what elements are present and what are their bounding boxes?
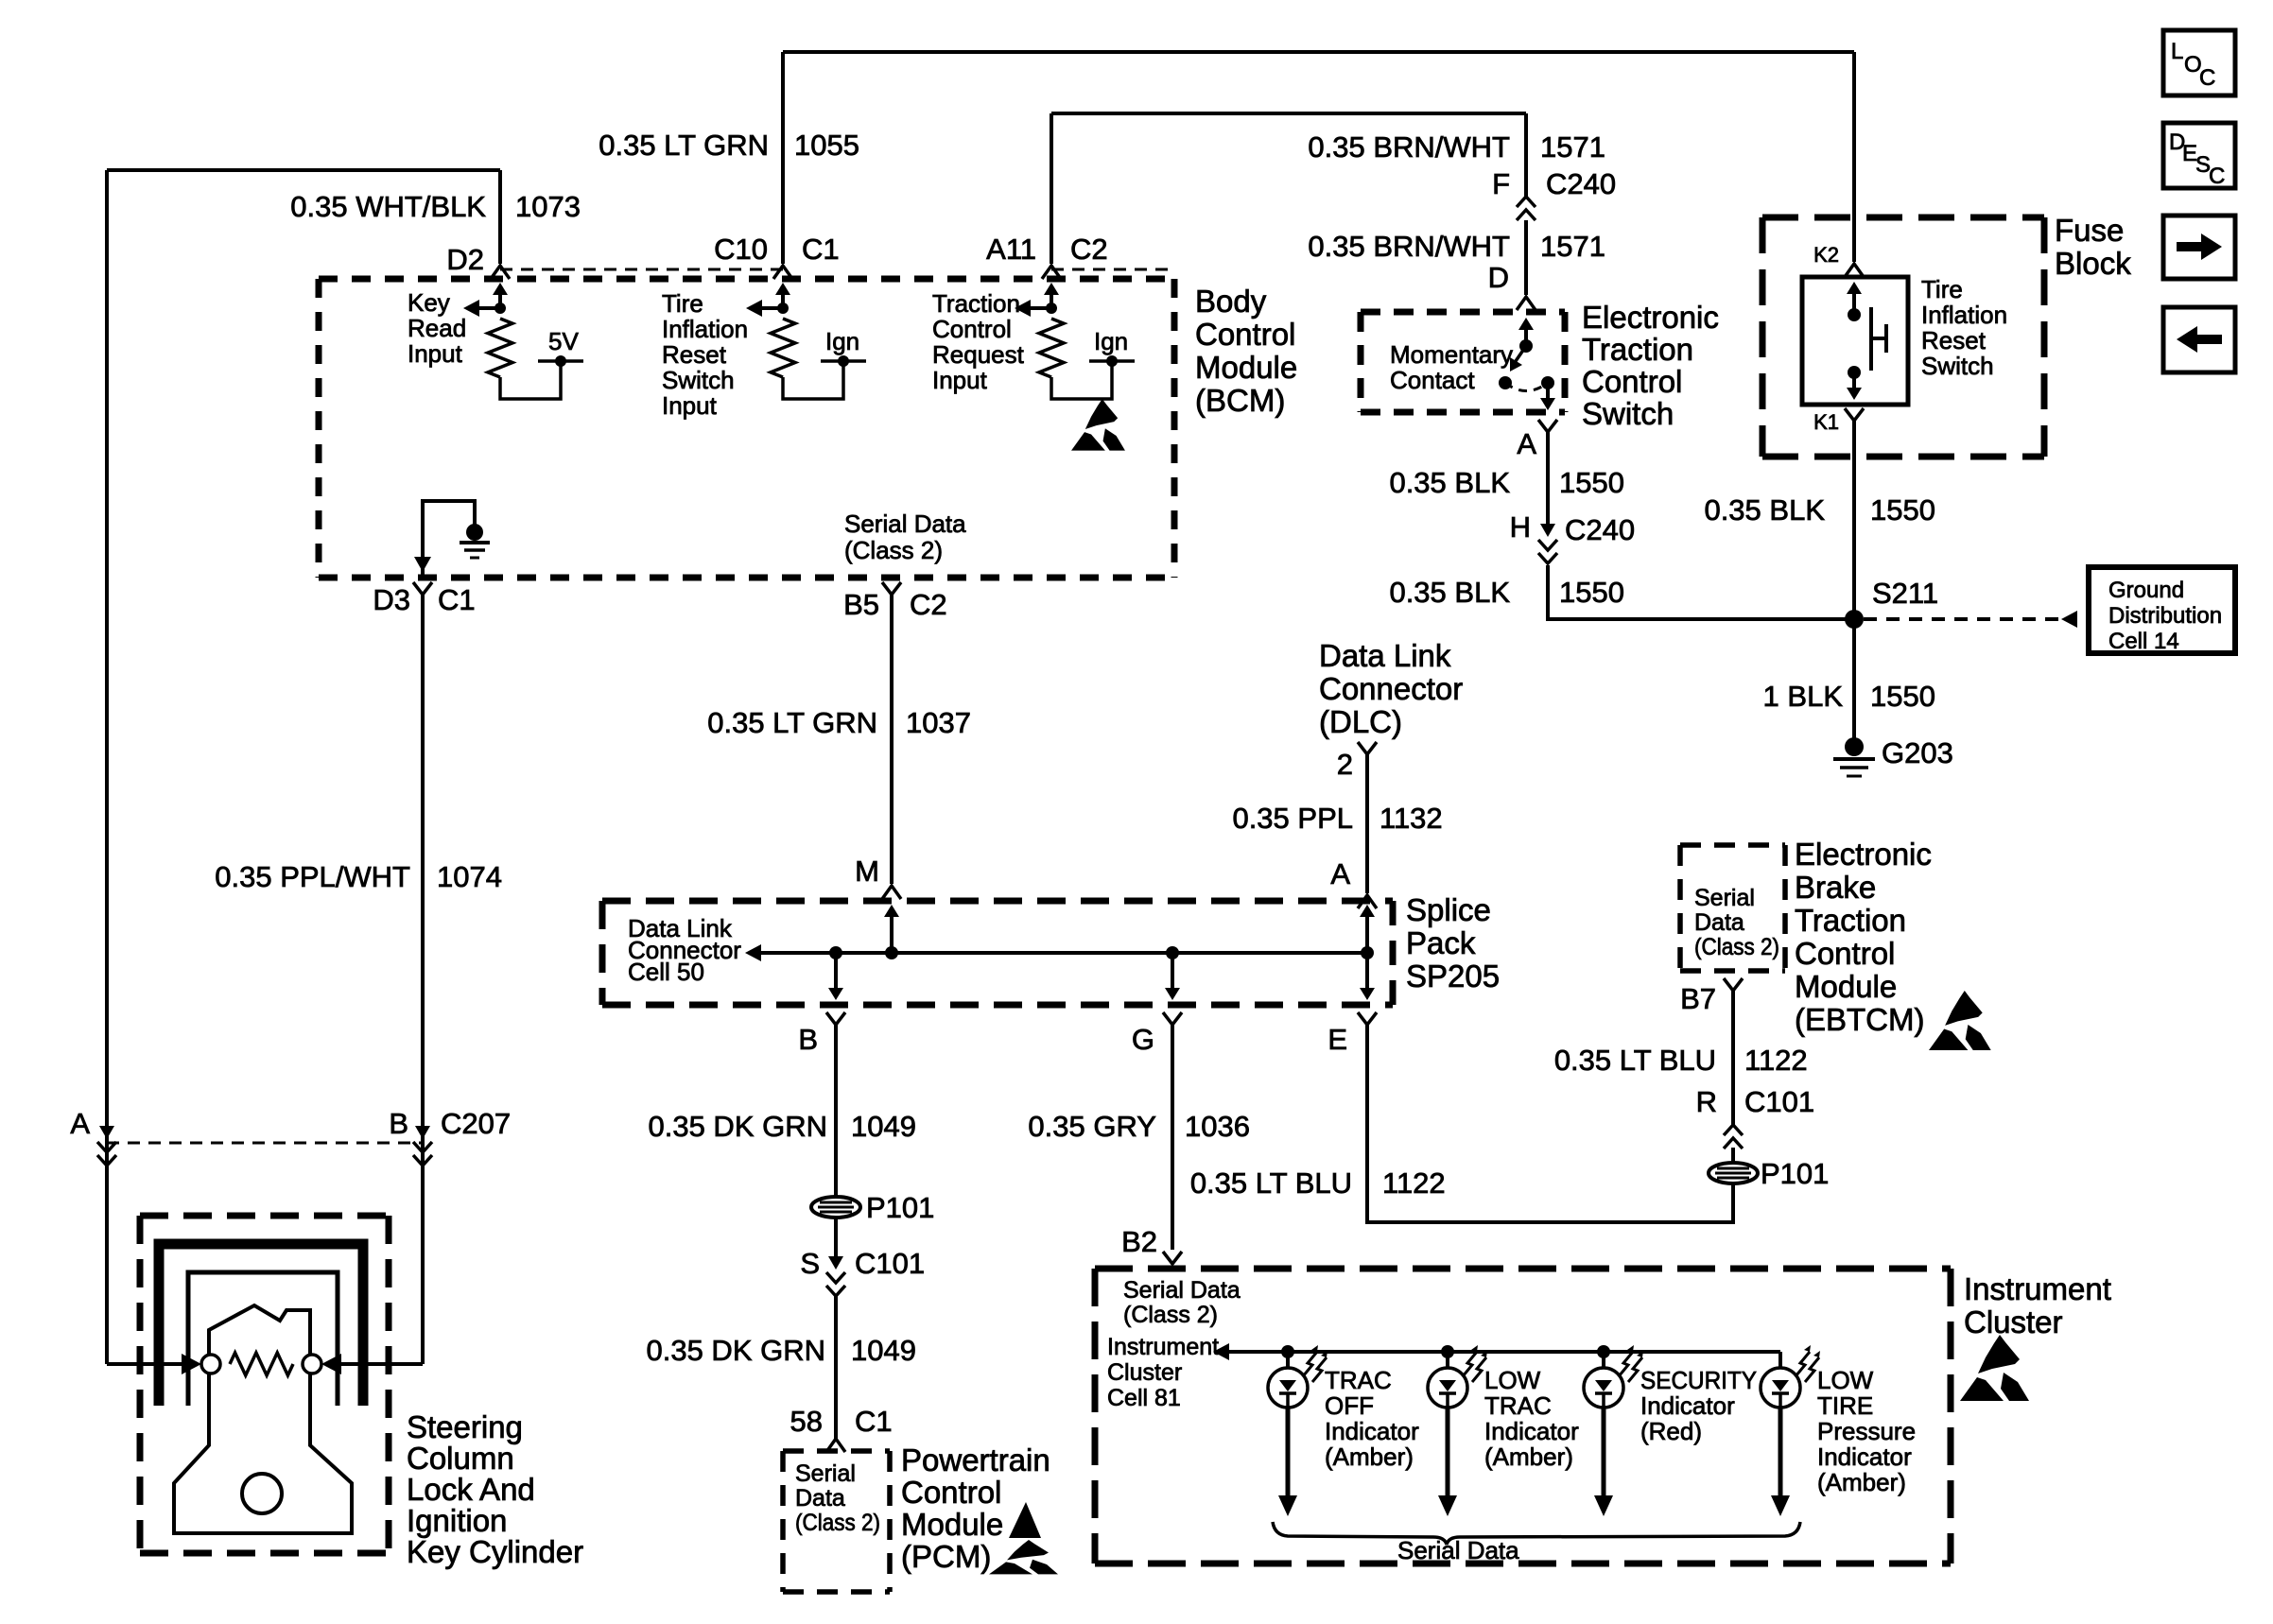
svg-text:Ign: Ign [1094,327,1128,355]
svg-text:58: 58 [790,1405,823,1438]
svg-text:Module: Module [1195,350,1297,385]
svg-text:Fuse: Fuse [2055,213,2124,248]
svg-text:Distribution: Distribution [2108,603,2222,629]
svg-text:0.35 BRN/WHT: 0.35 BRN/WHT [1308,230,1510,263]
svg-text:Serial Data: Serial Data [844,510,966,538]
svg-text:Brake: Brake [1795,870,1876,905]
svg-text:(Amber): (Amber) [1817,1468,1906,1496]
svg-text:Serial: Serial [1694,885,1755,911]
svg-text:C2: C2 [1070,233,1108,266]
svg-text:1074: 1074 [437,860,502,893]
svg-text:P101: P101 [1761,1157,1829,1190]
svg-text:R: R [1696,1085,1717,1118]
svg-text:1550: 1550 [1870,680,1935,713]
svg-text:1037: 1037 [906,706,971,739]
svg-text:Splice: Splice [1406,892,1491,927]
svg-text:SECURITY: SECURITY [1640,1366,1757,1394]
svg-text:(Red): (Red) [1640,1417,1702,1445]
svg-text:Key Cylinder: Key Cylinder [407,1534,583,1569]
svg-text:G203: G203 [1882,736,1953,769]
svg-text:Serial Data: Serial Data [1397,1536,1519,1564]
svg-text:1571: 1571 [1540,230,1605,263]
svg-text:TRAC: TRAC [1484,1391,1552,1420]
svg-text:Body: Body [1195,284,1267,319]
svg-text:D3: D3 [373,583,410,616]
svg-text:Indicator: Indicator [1484,1417,1579,1445]
svg-text:Tire: Tire [1921,275,1963,303]
svg-text:A: A [1517,427,1536,460]
svg-text:Control: Control [1195,317,1295,352]
svg-text:C1: C1 [855,1405,893,1438]
svg-text:C: C [2199,65,2215,91]
svg-text:B7: B7 [1680,982,1716,1015]
svg-text:P101: P101 [866,1191,934,1224]
svg-text:1049: 1049 [851,1334,916,1367]
svg-text:Ignition: Ignition [407,1503,507,1538]
svg-text:Cluster: Cluster [1107,1359,1182,1386]
svg-text:0.35 DK GRN: 0.35 DK GRN [646,1334,825,1367]
svg-text:5V: 5V [548,327,579,355]
svg-text:(BCM): (BCM) [1195,383,1285,418]
svg-text:D: D [1488,261,1509,294]
svg-text:Connector: Connector [1319,671,1463,706]
svg-text:(PCM): (PCM) [901,1539,991,1574]
svg-text:LOW: LOW [1817,1366,1874,1394]
svg-text:0.35 BLK: 0.35 BLK [1389,466,1510,499]
svg-text:Module: Module [1795,969,1897,1004]
svg-text:H: H [1510,510,1531,544]
svg-text:0.35 GRY: 0.35 GRY [1028,1110,1156,1143]
svg-text:C10: C10 [714,233,768,266]
svg-text:Column: Column [407,1441,514,1476]
svg-text:Data Link: Data Link [1319,638,1451,673]
svg-text:B: B [389,1107,408,1140]
svg-text:0.35 WHT/BLK: 0.35 WHT/BLK [290,190,486,223]
svg-text:Module: Module [901,1507,1003,1542]
svg-text:Reset: Reset [662,340,727,369]
svg-text:A11: A11 [986,233,1036,266]
svg-text:TRAC: TRAC [1325,1366,1392,1394]
svg-text:Cell 14: Cell 14 [2108,629,2179,654]
svg-text:Powertrain: Powertrain [901,1443,1050,1477]
svg-text:Inflation: Inflation [1921,301,2007,329]
svg-text:TIRE: TIRE [1817,1391,1873,1420]
svg-text:K1: K1 [1813,410,1839,434]
svg-text:Input: Input [662,391,718,420]
svg-text:C240: C240 [1546,167,1616,200]
svg-text:Tire: Tire [662,289,703,318]
svg-text:Indicator: Indicator [1640,1391,1735,1420]
svg-text:Electronic: Electronic [1795,837,1932,872]
svg-text:A: A [1330,857,1350,890]
svg-text:Traction: Traction [1795,903,1906,938]
svg-text:Pressure: Pressure [1817,1417,1916,1445]
svg-text:Indicator: Indicator [1817,1443,1912,1471]
svg-text:Momentary: Momentary [1390,340,1513,369]
svg-text:Block: Block [2055,246,2131,281]
svg-text:Data: Data [795,1485,845,1512]
svg-text:S211: S211 [1872,577,1938,610]
svg-text:(Class 2): (Class 2) [1694,934,1779,960]
svg-text:Cluster: Cluster [1964,1304,2063,1339]
svg-text:1550: 1550 [1559,466,1624,499]
svg-text:1036: 1036 [1185,1110,1250,1143]
svg-text:C207: C207 [441,1107,511,1140]
svg-text:Traction: Traction [1582,332,1693,367]
svg-text:(Amber): (Amber) [1325,1443,1414,1471]
svg-text:Steering: Steering [407,1409,523,1444]
svg-text:(Class 2): (Class 2) [795,1510,880,1536]
svg-text:2: 2 [1337,748,1353,781]
svg-text:Lock And: Lock And [407,1472,535,1507]
svg-text:K2: K2 [1813,243,1839,267]
svg-text:Data: Data [1694,909,1744,936]
svg-text:Switch: Switch [1582,396,1674,431]
svg-text:(EBTCM): (EBTCM) [1795,1002,1924,1037]
svg-text:0.35 LT GRN: 0.35 LT GRN [599,129,769,162]
svg-text:1073: 1073 [515,190,581,223]
svg-text:C101: C101 [1744,1085,1814,1118]
svg-text:S: S [800,1247,820,1280]
svg-text:G: G [1132,1023,1154,1056]
svg-text:Electronic: Electronic [1582,300,1719,335]
svg-text:Reset: Reset [1921,326,1987,354]
svg-text:Input: Input [408,339,463,368]
svg-text:0.35 DK GRN: 0.35 DK GRN [648,1110,827,1143]
svg-text:Key: Key [408,288,450,317]
svg-text:Serial Data: Serial Data [1123,1277,1241,1304]
svg-text:0.35 PPL: 0.35 PPL [1232,802,1353,835]
svg-text:Inflation: Inflation [662,315,748,343]
svg-text:Indicator: Indicator [1325,1417,1419,1445]
svg-text:1550: 1550 [1559,576,1624,609]
svg-text:1 BLK: 1 BLK [1763,680,1844,713]
svg-text:0.35 BRN/WHT: 0.35 BRN/WHT [1308,130,1510,164]
svg-text:C1: C1 [802,233,840,266]
svg-text:0.35 LT BLU: 0.35 LT BLU [1190,1166,1352,1200]
svg-text:0.35 LT GRN: 0.35 LT GRN [707,706,877,739]
svg-text:0.35 BLK: 0.35 BLK [1704,493,1825,527]
svg-text:Control: Control [1582,364,1682,399]
svg-text:LOW: LOW [1484,1366,1541,1394]
svg-text:(Class 2): (Class 2) [844,536,943,564]
svg-text:C: C [2209,164,2225,189]
svg-text:Control: Control [901,1475,1001,1510]
svg-text:0.35 PPL/WHT: 0.35 PPL/WHT [215,860,410,893]
svg-text:E: E [1327,1023,1347,1056]
svg-text:C240: C240 [1565,513,1635,546]
svg-text:1132: 1132 [1379,802,1443,835]
svg-text:Cell 81: Cell 81 [1107,1385,1181,1411]
svg-text:A: A [70,1107,90,1140]
svg-text:B5: B5 [843,588,879,621]
svg-text:1122: 1122 [1744,1044,1808,1077]
svg-text:D2: D2 [446,243,484,276]
svg-text:1122: 1122 [1382,1166,1446,1200]
svg-text:SP205: SP205 [1406,959,1500,993]
svg-text:Input: Input [932,366,988,394]
svg-text:Contact: Contact [1390,366,1475,394]
svg-text:L: L [2171,39,2183,64]
svg-text:Instrument: Instrument [1964,1271,2111,1306]
svg-text:Request: Request [932,340,1025,369]
svg-text:1571: 1571 [1540,130,1605,164]
svg-text:C101: C101 [855,1247,925,1280]
svg-text:OFF: OFF [1325,1391,1374,1420]
svg-text:(Class 2): (Class 2) [1123,1302,1218,1328]
svg-text:(DLC): (DLC) [1319,704,1402,739]
svg-text:1055: 1055 [794,129,859,162]
svg-text:F: F [1492,167,1510,200]
svg-text:0.35 LT BLU: 0.35 LT BLU [1554,1044,1716,1077]
svg-text:C2: C2 [910,588,947,621]
svg-text:Control: Control [932,315,1012,343]
svg-text:B2: B2 [1121,1225,1157,1258]
svg-text:Ground: Ground [2108,578,2184,603]
svg-text:Switch: Switch [662,366,735,394]
svg-text:Switch: Switch [1921,352,1994,380]
svg-text:1049: 1049 [851,1110,916,1143]
svg-text:Ign: Ign [825,327,859,355]
svg-text:Control: Control [1795,936,1895,971]
svg-text:Read: Read [408,314,466,342]
svg-text:M: M [855,855,879,888]
svg-text:1550: 1550 [1870,493,1935,527]
svg-text:B: B [798,1023,818,1056]
svg-text:Traction: Traction [932,289,1020,318]
svg-text:C1: C1 [438,583,476,616]
svg-text:(Amber): (Amber) [1484,1443,1573,1471]
svg-text:Pack: Pack [1406,925,1476,960]
svg-text:Serial: Serial [795,1460,856,1487]
svg-text:Cell 50: Cell 50 [628,958,704,986]
svg-text:Instrument: Instrument [1107,1334,1219,1360]
svg-text:0.35 BLK: 0.35 BLK [1389,576,1510,609]
